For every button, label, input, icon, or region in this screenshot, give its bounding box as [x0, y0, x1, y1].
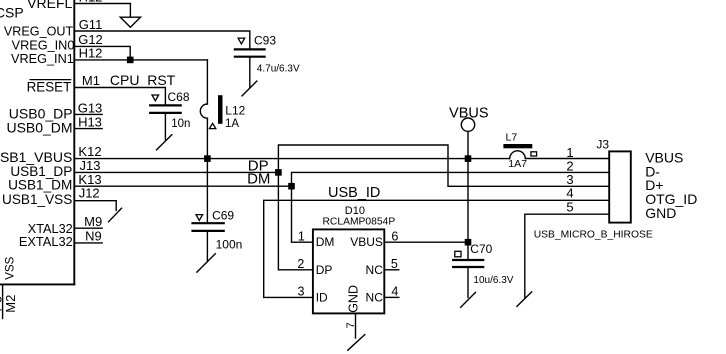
wire VREG_IN1 pin — [74, 59, 207, 61]
svg-text:USB1_VSS: USB1_VSS — [2, 192, 72, 207]
wire USB0_DP stub — [74, 113, 102, 115]
D10 pin4 NC stub — [384, 296, 399, 298]
svg-text:C68: C68 — [168, 90, 190, 104]
svg-text:RESET: RESET — [27, 79, 72, 94]
svg-text:4.7u/6.3V: 4.7u/6.3V — [257, 63, 300, 74]
wire C69 to ground — [206, 232, 208, 261]
svg-text:USB_MICRO_B_HIROSE: USB_MICRO_B_HIROSE — [534, 230, 653, 241]
svg-text:K12: K12 — [78, 144, 101, 159]
svg-text:P5: P5 — [0, 296, 5, 312]
svg-text:G13: G13 — [78, 100, 103, 115]
svg-text:C70: C70 — [470, 242, 492, 256]
svg-text:GND: GND — [645, 205, 676, 221]
capacitor C70 — [453, 259, 483, 261]
svg-text:C69: C69 — [212, 209, 234, 223]
capacitor C68 — [150, 104, 181, 106]
wire VREG_IN0 pin — [74, 46, 130, 60]
wire C93 to ground — [249, 58, 251, 87]
ground (slash) below J3 GND — [517, 292, 532, 307]
wire USB_ID to D10 pin3 — [264, 296, 313, 298]
wire DP down to D10 pin2 — [278, 172, 313, 269]
svg-text:VSS: VSS — [5, 256, 17, 279]
ground (slash) below D10 pin7 — [348, 335, 365, 351]
L12 polarity triangle — [209, 123, 215, 128]
IC bottom edge — [0, 283, 74, 285]
node VREG_IN1/VREG_IN0 junction — [127, 57, 134, 64]
wire EXTAL32 stub — [74, 242, 102, 244]
wire VBUS rail down to C69 — [206, 159, 208, 223]
wire RESET pin to C68 — [74, 88, 165, 105]
capacitor C69 — [193, 222, 224, 224]
svg-text:NC: NC — [366, 290, 384, 304]
svg-text:10n: 10n — [171, 118, 190, 130]
svg-text:DM: DM — [247, 171, 270, 188]
svg-text:L12: L12 — [225, 104, 245, 118]
C93 polarity marker — [238, 38, 245, 44]
svg-text:H12: H12 — [79, 46, 103, 61]
svg-text:CSP: CSP — [0, 5, 24, 21]
inductor L12 (half-turn) — [200, 104, 207, 118]
svg-text:VBUS: VBUS — [350, 235, 383, 249]
wire USB0_DM stub — [74, 128, 102, 130]
svg-text:J3: J3 — [596, 138, 609, 152]
svg-text:H12: H12 — [79, 0, 103, 4]
wire VREFL pin — [74, 4, 130, 17]
D10 pin5 NC stub — [384, 269, 399, 271]
svg-text:5: 5 — [566, 200, 573, 215]
op-amp D10 box — [313, 229, 384, 313]
svg-text:NC: NC — [366, 263, 384, 277]
wire USB1_VBUS rail — [74, 158, 509, 160]
svg-text:VREFL: VREFL — [27, 0, 72, 11]
IC U1 right edge — [73, 0, 75, 284]
node DP junction — [275, 169, 282, 176]
power node VBUS circle — [461, 118, 474, 131]
D10 pin7 GND stub — [355, 313, 357, 338]
node VBUS drop junction — [465, 155, 472, 162]
wire DM down to D10 pin1 — [292, 186, 313, 242]
wire C68 to ground — [164, 114, 166, 140]
wire USB1_DP pin — [74, 171, 278, 173]
svg-text:100n: 100n — [216, 237, 243, 251]
wire L12 to VBUS rail — [206, 118, 208, 158]
L12 core bar — [218, 95, 223, 124]
ground (slash) below C93 — [242, 81, 257, 96]
wire D10 VBUS pin6 to rail — [384, 241, 468, 243]
svg-text:7: 7 — [345, 322, 357, 328]
svg-text:L7: L7 — [506, 132, 518, 144]
svg-text:J12: J12 — [79, 186, 100, 201]
svg-text:USB1_VBUS: USB1_VBUS — [0, 149, 72, 165]
ground (slash) below USB1_VSS — [109, 208, 122, 222]
svg-text:DP: DP — [316, 263, 333, 277]
svg-text:VBUS: VBUS — [449, 105, 489, 121]
inductor L7 (half-turn) — [510, 151, 526, 159]
svg-text:6: 6 — [391, 230, 398, 244]
node C70 junction — [465, 239, 472, 246]
svg-text:5: 5 — [391, 257, 398, 271]
node L12/VBUS junction — [204, 155, 211, 162]
wire VREG_IN1 down to L12 — [206, 60, 208, 104]
svg-text:3: 3 — [298, 285, 305, 299]
svg-text:USB1_DM: USB1_DM — [8, 178, 72, 193]
wire J3 pin5 GND — [525, 214, 609, 298]
C70 polarity marker — [455, 251, 461, 256]
svg-text:N9: N9 — [85, 228, 102, 243]
ground (slash) below C69 — [197, 254, 215, 272]
node DM junction — [288, 183, 295, 190]
svg-text:DM: DM — [316, 235, 335, 249]
svg-text:M9: M9 — [84, 214, 102, 229]
wire L7 to J3 pin1 — [525, 158, 609, 160]
svg-text:VREG_OUT: VREG_OUT — [4, 25, 74, 39]
svg-text:VREG_IN1: VREG_IN1 — [11, 52, 74, 66]
svg-text:G11: G11 — [79, 17, 103, 32]
svg-text:GND: GND — [346, 285, 360, 313]
svg-text:1A7: 1A7 — [508, 158, 527, 170]
svg-text:M2: M2 — [3, 295, 18, 313]
svg-text:1: 1 — [298, 230, 305, 244]
svg-text:10u/6.3V: 10u/6.3V — [473, 275, 513, 286]
svg-text:2: 2 — [297, 257, 304, 271]
svg-text:USB1_DP: USB1_DP — [10, 164, 72, 179]
wire XTAL32 stub — [74, 227, 102, 229]
svg-text:D10: D10 — [345, 205, 365, 217]
wire USB1_DM pin — [74, 185, 291, 187]
wire VSS/M2 bottom pin stub — [2, 284, 4, 318]
ground (slash) below C68 — [157, 135, 172, 150]
svg-text:USB0_DM: USB0_DM — [6, 120, 72, 136]
wire DM up to J3 D- — [292, 172, 610, 186]
RESET overline — [30, 79, 71, 81]
wire USB1_VSS pin — [74, 201, 116, 211]
capacitor C93 — [235, 48, 265, 50]
svg-text:H13: H13 — [78, 115, 102, 130]
svg-text:USB_ID: USB_ID — [328, 185, 380, 201]
wire C70 to ground — [467, 268, 469, 297]
wire DP crossover to J3 D+ — [278, 145, 609, 186]
wire VBUS vertical — [467, 131, 469, 259]
ground (slash) below C70 — [461, 292, 476, 307]
svg-text:EXTAL32: EXTAL32 — [19, 234, 73, 249]
C68 polarity marker — [152, 95, 159, 101]
svg-text:J13: J13 — [80, 158, 101, 173]
wire USB_ID net to J3 OTG_ID — [264, 200, 610, 297]
svg-text:ID: ID — [316, 290, 328, 304]
L7 core bar — [503, 144, 532, 148]
svg-text:4: 4 — [391, 285, 398, 299]
connector J3 box — [609, 151, 631, 222]
svg-text:4: 4 — [566, 186, 573, 201]
svg-text:CPU_RST: CPU_RST — [110, 72, 176, 88]
svg-text:RCLAMP0854P: RCLAMP0854P — [323, 217, 396, 228]
svg-text:C93: C93 — [254, 34, 276, 48]
C69 polarity marker — [196, 215, 203, 221]
svg-text:VREG_IN0: VREG_IN0 — [12, 39, 75, 53]
L7 polarity square — [531, 152, 537, 156]
svg-text:1A: 1A — [225, 118, 239, 130]
svg-text:M1: M1 — [82, 73, 100, 88]
wire VREG_OUT pin to C93 — [74, 31, 250, 48]
ground (triangle) — [120, 17, 140, 27]
